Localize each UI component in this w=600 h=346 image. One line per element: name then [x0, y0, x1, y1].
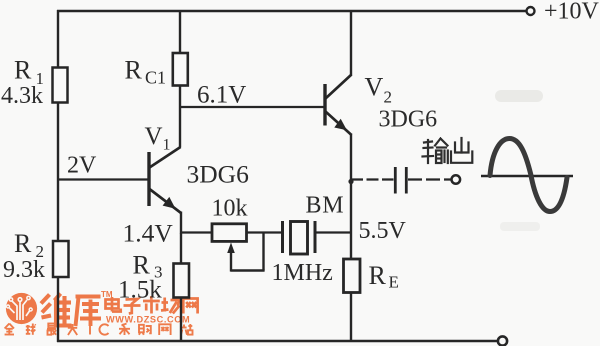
- svg-text:1: 1: [163, 137, 171, 154]
- svg-text:10k: 10k: [212, 196, 248, 222]
- label 输出 (output): [423, 138, 473, 163]
- wire 6.1V node to V2 base: [180, 106, 324, 108]
- watermark 库 char: [76, 297, 102, 327]
- wire output right dashed: [408, 178, 451, 180]
- transistor V1 emitter arrow: [163, 197, 176, 209]
- svg-text:R: R: [125, 56, 143, 85]
- wire 1.4V node to potentiometer: [181, 231, 212, 233]
- 最: [48, 324, 55, 329]
- watermark 网 char: [183, 299, 197, 314]
- 采: [122, 324, 127, 327]
- svg-text:+10V: +10V: [544, 0, 600, 25]
- I C letters: [89, 325, 91, 335]
- crystal BM left plate: [281, 221, 284, 253]
- 网: [159, 324, 170, 335]
- wire left vertical upper: [57, 10, 59, 68]
- wire output left dashed: [351, 178, 394, 180]
- terminal output: [452, 175, 461, 184]
- 输 char: [423, 139, 448, 164]
- capacitor output right plate: [405, 167, 408, 194]
- 购: [139, 325, 144, 333]
- watermark 市 char: [143, 296, 160, 314]
- svg-text:R: R: [369, 261, 387, 290]
- 出 char: [451, 138, 472, 163]
- watermark 场 char: [161, 298, 180, 314]
- wire pot wiper stem: [230, 252, 232, 272]
- svg-text:R: R: [133, 251, 151, 280]
- svg-text:WWW.DZSC.COM: WWW.DZSC.COM: [106, 315, 190, 325]
- transistor V1 collector stroke: [150, 147, 181, 168]
- transistor V2 base bar: [323, 84, 326, 126]
- wire pot wiper loop down: [262, 233, 264, 271]
- potentiometer 10k body: [212, 224, 247, 242]
- wire RE bottom: [350, 293, 352, 343]
- resistor R3: [174, 264, 190, 298]
- crystal BM body: [291, 222, 308, 255]
- crystal BM right plate: [314, 221, 317, 253]
- wire pot right to crystal: [247, 231, 282, 233]
- svg-text:BM: BM: [306, 193, 345, 219]
- terminal +10V: [527, 7, 535, 15]
- watermark 电 char: [106, 297, 121, 312]
- sine wave axis: [481, 175, 573, 177]
- watermark 维 char: [41, 294, 72, 327]
- wire RC1 top: [179, 10, 181, 53]
- 全: [5, 324, 14, 329]
- resistor R1: [53, 68, 68, 103]
- transistor V2 emitter arrow: [334, 119, 347, 130]
- wire crystal to 5.5V node: [317, 231, 352, 233]
- 球: [27, 325, 29, 334]
- resistor RE: [344, 259, 361, 293]
- svg-text:E: E: [389, 273, 399, 292]
- svg-text:1MHz: 1MHz: [272, 260, 333, 286]
- 站: [183, 325, 185, 328]
- scan smudge near 6.1V: [495, 90, 543, 102]
- resistor R2: [53, 241, 69, 277]
- svg-text:C1: C1: [145, 68, 166, 88]
- transistor V1 base bar: [147, 152, 150, 206]
- wire left vertical middle: [57, 103, 59, 242]
- svg-text:3DG6: 3DG6: [187, 160, 249, 189]
- junction dot output node: [348, 179, 353, 184]
- svg-text:2V: 2V: [67, 153, 97, 179]
- transistor V2 emitter stroke: [326, 112, 352, 136]
- wire V2 collector up: [350, 10, 352, 76]
- svg-text:3DG6: 3DG6: [379, 107, 438, 133]
- wire pot wiper loop bottom: [231, 269, 265, 271]
- wire left vertical lower: [57, 277, 59, 342]
- svg-text:V: V: [365, 73, 384, 102]
- svg-text:5.5V: 5.5V: [359, 218, 407, 244]
- wire V1 base: [58, 178, 148, 180]
- svg-text:4.3k: 4.3k: [1, 83, 43, 109]
- 大: [68, 327, 77, 329]
- watermark 子 char: [124, 299, 141, 314]
- transistor V2 collector stroke: [326, 75, 352, 99]
- watermark bottom row 全球最大IC采购网站: [5, 324, 193, 336]
- wire RC1 to V1 collector node: [179, 86, 181, 148]
- wire 1.4V node to R3: [180, 233, 182, 264]
- scan smudge below output: [500, 222, 540, 231]
- svg-text:R: R: [14, 229, 32, 258]
- watermark logo circle: [6, 293, 37, 324]
- terminal bottom right: [498, 336, 507, 345]
- resistor RC1: [173, 53, 188, 86]
- wire R3 bottom: [180, 298, 182, 343]
- svg-text:1.5k: 1.5k: [118, 277, 162, 304]
- svg-text:V: V: [145, 123, 163, 150]
- svg-text:9.3k: 9.3k: [3, 257, 45, 283]
- wire top rail: [57, 10, 526, 13]
- wire V1 emitter down: [180, 212, 182, 234]
- svg-text:R: R: [14, 56, 32, 85]
- svg-text:1.4V: 1.4V: [123, 219, 174, 248]
- potentiometer wiper arrow: [227, 243, 235, 254]
- wire V2 emitter down to RE: [350, 134, 352, 260]
- svg-text:2: 2: [384, 88, 393, 107]
- sine wave curve: [490, 139, 567, 212]
- capacitor output left plate: [394, 167, 397, 194]
- wire bottom rail: [57, 340, 497, 343]
- svg-text:6.1V: 6.1V: [197, 82, 246, 109]
- transistor V1 emitter stroke: [150, 189, 182, 213]
